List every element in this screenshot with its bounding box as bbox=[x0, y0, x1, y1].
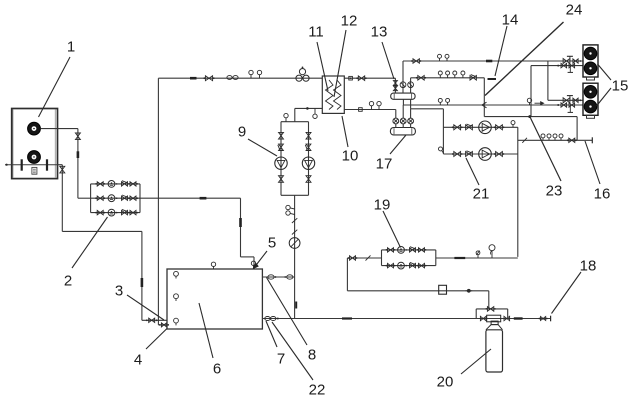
svg-text:23: 23 bbox=[546, 182, 563, 199]
svg-text:1: 1 bbox=[67, 38, 75, 55]
svg-text:22: 22 bbox=[309, 381, 326, 398]
svg-text:8: 8 bbox=[308, 346, 316, 363]
svg-text:3: 3 bbox=[115, 282, 123, 299]
svg-text:7: 7 bbox=[277, 350, 285, 367]
svg-text:21: 21 bbox=[473, 185, 490, 202]
svg-text:18: 18 bbox=[580, 257, 597, 274]
svg-text:10: 10 bbox=[342, 147, 359, 164]
svg-text:9: 9 bbox=[238, 123, 246, 140]
svg-text:13: 13 bbox=[371, 23, 388, 40]
svg-text:4: 4 bbox=[134, 351, 142, 368]
svg-text:15: 15 bbox=[612, 77, 629, 94]
svg-text:2: 2 bbox=[64, 272, 72, 289]
svg-text:14: 14 bbox=[502, 11, 519, 28]
svg-text:17: 17 bbox=[376, 155, 393, 172]
svg-text:6: 6 bbox=[213, 360, 221, 377]
svg-text:5: 5 bbox=[268, 234, 276, 251]
svg-text:11: 11 bbox=[308, 23, 324, 40]
svg-text:20: 20 bbox=[437, 373, 454, 390]
svg-text:16: 16 bbox=[594, 185, 611, 202]
svg-text:24: 24 bbox=[566, 1, 583, 18]
svg-text:19: 19 bbox=[374, 196, 391, 213]
svg-text:12: 12 bbox=[341, 12, 358, 29]
